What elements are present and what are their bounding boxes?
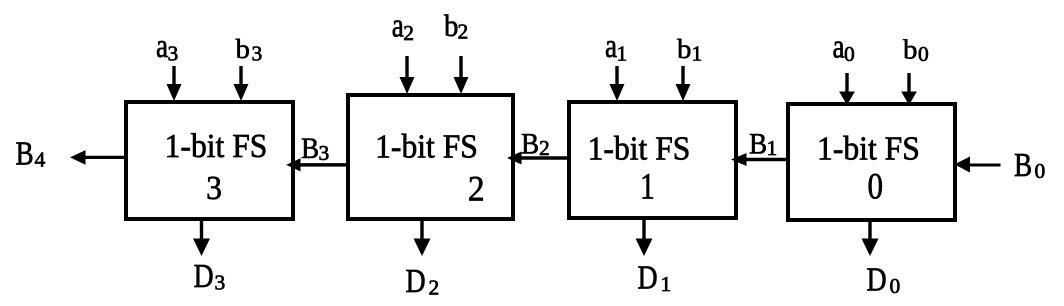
svg-text:D: D	[638, 258, 658, 296]
svg-text:2: 2	[403, 21, 414, 45]
svg-text:B: B	[521, 128, 539, 160]
svg-text:0: 0	[918, 42, 929, 66]
svg-text:1-bit FS: 1-bit FS	[817, 130, 920, 167]
svg-text:0: 0	[844, 42, 855, 66]
svg-text:D: D	[406, 261, 426, 299]
svg-text:D: D	[867, 260, 887, 298]
svg-text:1: 1	[661, 272, 672, 296]
svg-text:a: a	[605, 27, 617, 65]
svg-text:1: 1	[617, 42, 628, 66]
svg-text:3: 3	[215, 271, 226, 295]
svg-text:3: 3	[319, 141, 330, 165]
svg-text:B: B	[1014, 146, 1032, 184]
svg-text:0: 0	[890, 274, 901, 298]
svg-text:b: b	[236, 34, 250, 64]
svg-text:0: 0	[1035, 159, 1046, 183]
svg-text:D: D	[194, 256, 214, 294]
svg-text:B: B	[16, 135, 34, 173]
svg-text:a: a	[833, 28, 845, 66]
svg-text:b: b	[444, 9, 458, 43]
svg-text:2: 2	[539, 136, 550, 160]
svg-text:b: b	[677, 34, 691, 64]
svg-text:1-bit FS: 1-bit FS	[588, 130, 691, 167]
svg-text:a: a	[156, 27, 168, 65]
svg-text:a: a	[392, 7, 404, 45]
svg-text:3: 3	[168, 42, 179, 66]
svg-text:1: 1	[692, 42, 703, 66]
svg-text:1: 1	[767, 136, 778, 160]
svg-text:B: B	[749, 128, 767, 160]
svg-text:1-bit FS: 1-bit FS	[165, 128, 268, 165]
svg-text:B: B	[301, 133, 319, 165]
svg-text:b: b	[903, 35, 917, 65]
svg-text:0: 0	[867, 167, 883, 207]
svg-text:1-bit FS: 1-bit FS	[375, 129, 478, 166]
svg-text:2: 2	[429, 276, 440, 300]
svg-text:1: 1	[640, 167, 655, 208]
svg-text:2: 2	[468, 168, 485, 208]
svg-text:3: 3	[206, 170, 222, 207]
svg-text:3: 3	[252, 42, 263, 66]
svg-text:2: 2	[458, 20, 469, 44]
svg-text:4: 4	[35, 148, 46, 172]
